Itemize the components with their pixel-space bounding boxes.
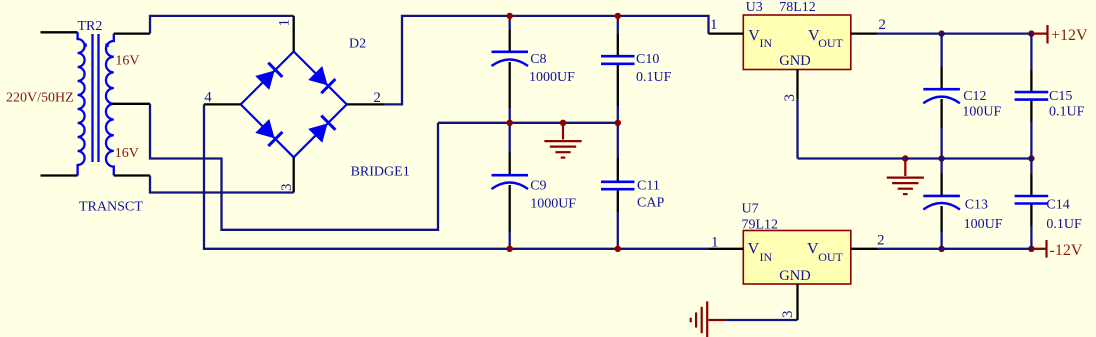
U3 pin 1 lead [709,32,744,34]
U3 pin 3 lead [796,70,798,100]
wire center tap to ground mid rail [150,104,438,230]
svg-text:1000UF: 1000UF [529,70,575,85]
svg-text:OUT: OUT [818,250,843,264]
svg-text:0.1UF: 0.1UF [1046,217,1082,232]
svg-text:C14: C14 [1046,198,1069,213]
capacitor C14 plates [1015,195,1049,198]
wire U7 output to -12V node [877,248,1031,250]
svg-text:220V/50HZ: 220V/50HZ [6,91,74,106]
svg-text:0.1UF: 0.1UF [1049,104,1085,119]
transformer TR2 primary winding [78,32,85,175]
svg-text:OUT: OUT [818,36,843,50]
svg-text:-12V: -12V [1050,242,1083,259]
capacitor C14 pins [1030,174,1032,196]
svg-text:3: 3 [782,94,798,102]
svg-text:GND: GND [779,268,810,284]
capacitor C15 pins [1030,70,1032,92]
regulator U7 box [743,231,851,285]
capacitor C15 plates [1015,91,1049,94]
diode bridge bottom-right (points to pin2) [309,124,327,142]
power -12V symbol [1031,248,1046,250]
svg-text:16V: 16V [115,54,139,69]
svg-text:0.1UF: 0.1UF [636,70,672,85]
svg-text:+12V: +12V [1051,27,1088,44]
capacitor C8 lead wires [509,16,511,30]
capacitor C10 lead wires [617,16,619,34]
ground symbol at right rail [887,159,924,195]
svg-text:16V: 16V [115,146,139,161]
svg-text:C13: C13 [965,198,988,213]
bridge pin 1 lead [293,16,295,52]
svg-text:U7: U7 [742,202,759,217]
bridge rectifier D2 diamond [241,52,347,158]
wire secondary top to bridge pin 1 [150,16,294,34]
capacitor C11 pins [617,158,619,182]
diode bridge top-left (points to pin1) [256,71,274,89]
U3 pin 2 lead [851,32,877,34]
capacitor C12 lead wires [940,34,942,67]
svg-text:GND: GND [779,53,810,69]
capacitor C13 lead wires [940,159,942,174]
capacitor C10 pins [617,34,619,56]
svg-text:TRANSCT: TRANSCT [79,199,143,214]
svg-text:3: 3 [780,311,796,319]
svg-text:C12: C12 [963,89,986,104]
svg-text:V: V [748,241,760,258]
svg-text:IN: IN [760,36,773,50]
capacitor C12 plates [923,88,960,91]
svg-text:78L12: 78L12 [779,0,816,15]
svg-text:100UF: 100UF [964,217,1003,232]
bridge pin 4 lead [204,103,241,105]
svg-text:3: 3 [279,184,295,192]
wire U3 output to +12V node [877,32,1031,34]
diode bridge top-right (points to pin2) [309,67,327,85]
ground symbol at filter mid rail [544,123,581,158]
power +12V symbol [1031,32,1047,34]
svg-text:C15: C15 [1049,89,1072,104]
svg-text:U3: U3 [746,0,763,15]
capacitor C11 lead wires [617,123,619,158]
transformer TR2 primary bottom lead [41,174,78,176]
U7 pin 2 lead [851,248,877,250]
capacitor C9 lead wires [509,123,511,152]
capacitor C8 plates [492,50,529,53]
svg-text:C11: C11 [637,179,660,194]
regulator U3 box [743,15,851,70]
capacitor C14 lead wires [1030,159,1032,175]
svg-text:1: 1 [710,17,718,33]
svg-text:4: 4 [204,89,212,105]
svg-text:IN: IN [760,250,773,264]
svg-text:2: 2 [877,233,885,249]
svg-text:BRIDGE1: BRIDGE1 [351,165,410,180]
capacitor C9 plates [492,174,529,177]
transformer TR2 secondary bottom pin [114,174,150,176]
capacitor C8 pins [509,30,511,52]
wire U3 gnd down to right ground rail [796,99,798,159]
transformer TR2 primary top lead [41,31,78,33]
svg-text:100UF: 100UF [962,104,1001,119]
transformer TR2 core [91,34,93,162]
wire secondary bottom to bridge pin 3 [150,176,294,193]
wire bridge pin 4 to - rail [204,104,709,248]
capacitor C13 plates [923,195,960,198]
wire ground mid rail [438,122,618,124]
transformer TR2 secondary winding [106,34,114,176]
wire U7 gnd to power ground [725,319,797,321]
svg-text:C8: C8 [530,52,546,67]
capacitor C10 plates [601,55,635,58]
capacitor C9 pins [509,152,511,175]
svg-text:1000UF: 1000UF [530,197,576,212]
transformer TR2 secondary top pin [114,32,150,34]
wire bridge pin 2 to + rail [385,16,709,105]
svg-text:79L12: 79L12 [742,217,779,232]
svg-text:2: 2 [878,17,886,33]
capacitor C13 pins [940,173,942,196]
bridge pin 3 lead [293,157,295,192]
transformer TR2 polarity dot secondary [105,43,108,46]
svg-text:TR2: TR2 [78,19,103,34]
svg-text:C9: C9 [530,179,546,194]
capacitor C15 lead wires [1030,34,1032,70]
transformer TR2 polarity dot primary [83,43,86,46]
capacitor C12 pins [940,67,942,89]
capacitor C11 plates [601,181,635,184]
bridge pin 2 lead [347,103,385,105]
svg-text:1: 1 [711,235,719,251]
U7 pin 3 lead [796,284,798,320]
junction dots [507,13,513,19]
diode bridge bottom-left (points to pin3) [256,120,274,138]
svg-text:V: V [807,241,819,258]
transformer TR2 secondary center tap pin [112,103,150,105]
svg-text:C10: C10 [636,52,659,67]
power ground at U7 (rotated earth) [691,301,726,337]
svg-text:D2: D2 [349,37,366,52]
U7 pin 1 lead [709,248,743,250]
svg-text:1: 1 [277,19,293,27]
svg-text:2: 2 [373,90,381,106]
svg-text:V: V [748,28,760,45]
svg-text:CAP: CAP [637,196,664,211]
wire right ground rail [798,157,1032,159]
